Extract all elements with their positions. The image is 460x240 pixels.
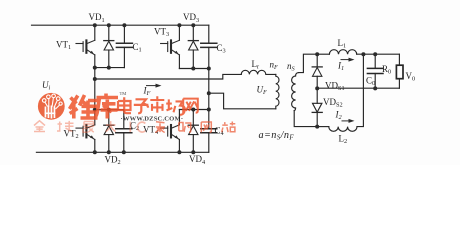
watermark char 场 [166, 99, 185, 114]
node top rail VT1 [93, 23, 97, 27]
current arrow IF [146, 84, 162, 88]
wire leg1 snubber bottom [95, 109, 124, 111]
svg-text:Ui: Ui [42, 80, 51, 92]
watermark char 球 [57, 121, 74, 132]
capacitor C0 [374, 54, 376, 68]
node B feed wire to transformer [209, 93, 276, 109]
node C0 top [373, 52, 377, 56]
current arrow I2 [342, 119, 355, 123]
watermark slogan row [34, 121, 145, 133]
svg-text:I1: I1 [337, 60, 344, 72]
diode VDS1 [316, 54, 318, 67]
svg-text:C4: C4 [215, 125, 225, 137]
watermark char 网 [183, 99, 198, 113]
capacitor C1 [123, 25, 125, 43]
node top rail VD3 [191, 23, 195, 27]
watermark char 电 [118, 97, 131, 113]
svg-text:V0: V0 [406, 71, 416, 83]
transistor VT1 [94, 25, 96, 40]
wire secondary bottom [294, 111, 317, 127]
wire leg2 snubber top [179, 68, 208, 70]
svg-text:VD4: VD4 [189, 154, 206, 165]
node B rectifier bottom [315, 125, 319, 129]
node A VD1 junction [107, 66, 111, 70]
resistor R0 [398, 54, 400, 65]
watermark char 市 [150, 96, 164, 112]
inductor L2 [317, 126, 329, 128]
node A snubber bottom junction [93, 108, 97, 112]
inductor Lr [241, 70, 276, 74]
node L2 top junction [361, 52, 365, 56]
svg-text:Lr: Lr [252, 59, 261, 71]
svg-text:C3: C3 [217, 43, 226, 55]
svg-text:VD3: VD3 [183, 12, 199, 24]
watermark char 库 [95, 94, 119, 119]
node B feed junction [207, 91, 211, 95]
diode VDS2 [316, 88, 318, 103]
watermark char 全 [34, 121, 45, 132]
node T rectifier top [315, 52, 319, 56]
watermark char 维 [70, 95, 98, 119]
watermark char 子 [134, 99, 149, 113]
diode VD2 [108, 110, 110, 126]
inductor L1 [317, 53, 329, 55]
watermark char 最 [83, 122, 94, 133]
svg-text:VDS1: VDS1 [325, 80, 345, 92]
wire leg1 snubber top [95, 67, 125, 69]
diode VD3 [192, 25, 194, 40]
logo disc [38, 93, 65, 120]
watermark char 采 [155, 122, 165, 133]
watermark char C [138, 122, 146, 132]
svg-text:L2: L2 [339, 133, 348, 145]
watermark char 网 [201, 122, 211, 132]
svg-text:VD1: VD1 [89, 12, 105, 24]
wire leg2 snubber bottom [179, 109, 208, 111]
node A feed wire to transformer [95, 74, 241, 79]
svg-text:I2: I2 [335, 109, 343, 121]
svg-text:L1: L1 [338, 38, 347, 50]
diode VD1 [108, 25, 110, 40]
node bottom rail VT2 [93, 150, 97, 154]
node bottom rail C2 [122, 150, 126, 154]
svg-text:R0: R0 [382, 64, 391, 76]
svg-text:nF: nF [270, 59, 279, 71]
wire node B column [208, 69, 210, 110]
svg-text:C1: C1 [133, 42, 142, 54]
svg-text:nS: nS [287, 61, 296, 73]
transformer primary nF [276, 74, 279, 108]
node B VD4 junction [191, 108, 195, 112]
node A feed junction [93, 77, 97, 81]
watermark char I [129, 122, 131, 132]
svg-text:VDS2: VDS2 [323, 97, 343, 109]
wire bottom rail [36, 151, 208, 153]
svg-text:UF: UF [257, 85, 268, 97]
node bottom rail VT4 [177, 150, 181, 154]
svg-text:·WWW.DZSC.COM·: ·WWW.DZSC.COM· [121, 116, 184, 123]
transistor VT3 [178, 25, 180, 40]
node A VD2 junction [107, 108, 111, 112]
transformer secondary nS [292, 73, 299, 111]
node top rail C1 [122, 23, 126, 27]
svg-text:VT3: VT3 [154, 26, 169, 38]
watermark [34, 91, 235, 133]
watermark char 购 [179, 123, 191, 133]
node B VD3 junction [191, 67, 195, 71]
node B C3 junction [207, 67, 211, 71]
watermark char 站 [222, 122, 236, 133]
node A emitter junction [93, 66, 97, 70]
node top rail VT3 [177, 23, 181, 27]
current arrow I1 [341, 58, 355, 62]
transistor VT4 [178, 110, 180, 125]
node top rail VD1 [107, 23, 111, 27]
svg-text:a=nS/nF: a=nS/nF [259, 130, 295, 142]
svg-text:VD2: VD2 [105, 155, 121, 166]
svg-text:VT1: VT1 [56, 39, 71, 51]
watermark char 大 [106, 121, 116, 131]
node M output return wire [317, 87, 399, 89]
svg-text:VT4: VT4 [143, 124, 159, 136]
wire secondary top [299, 54, 318, 72]
wire top rail [32, 24, 209, 26]
svg-text:TM: TM [120, 91, 127, 96]
capacitor C2 [123, 110, 125, 129]
svg-text:C0: C0 [366, 75, 375, 87]
capacitor C3 [208, 25, 210, 43]
svg-text:IF: IF [143, 86, 151, 98]
capacitor C4 [208, 110, 210, 129]
node bottom rail VD2 [107, 150, 111, 154]
diode VD4 [192, 110, 194, 126]
node M junction [315, 86, 319, 90]
transistor VT2 [94, 79, 96, 125]
node C0 bottom [373, 86, 377, 90]
node bottom rail VD4 [191, 150, 195, 154]
node B C4 junction [207, 108, 211, 112]
